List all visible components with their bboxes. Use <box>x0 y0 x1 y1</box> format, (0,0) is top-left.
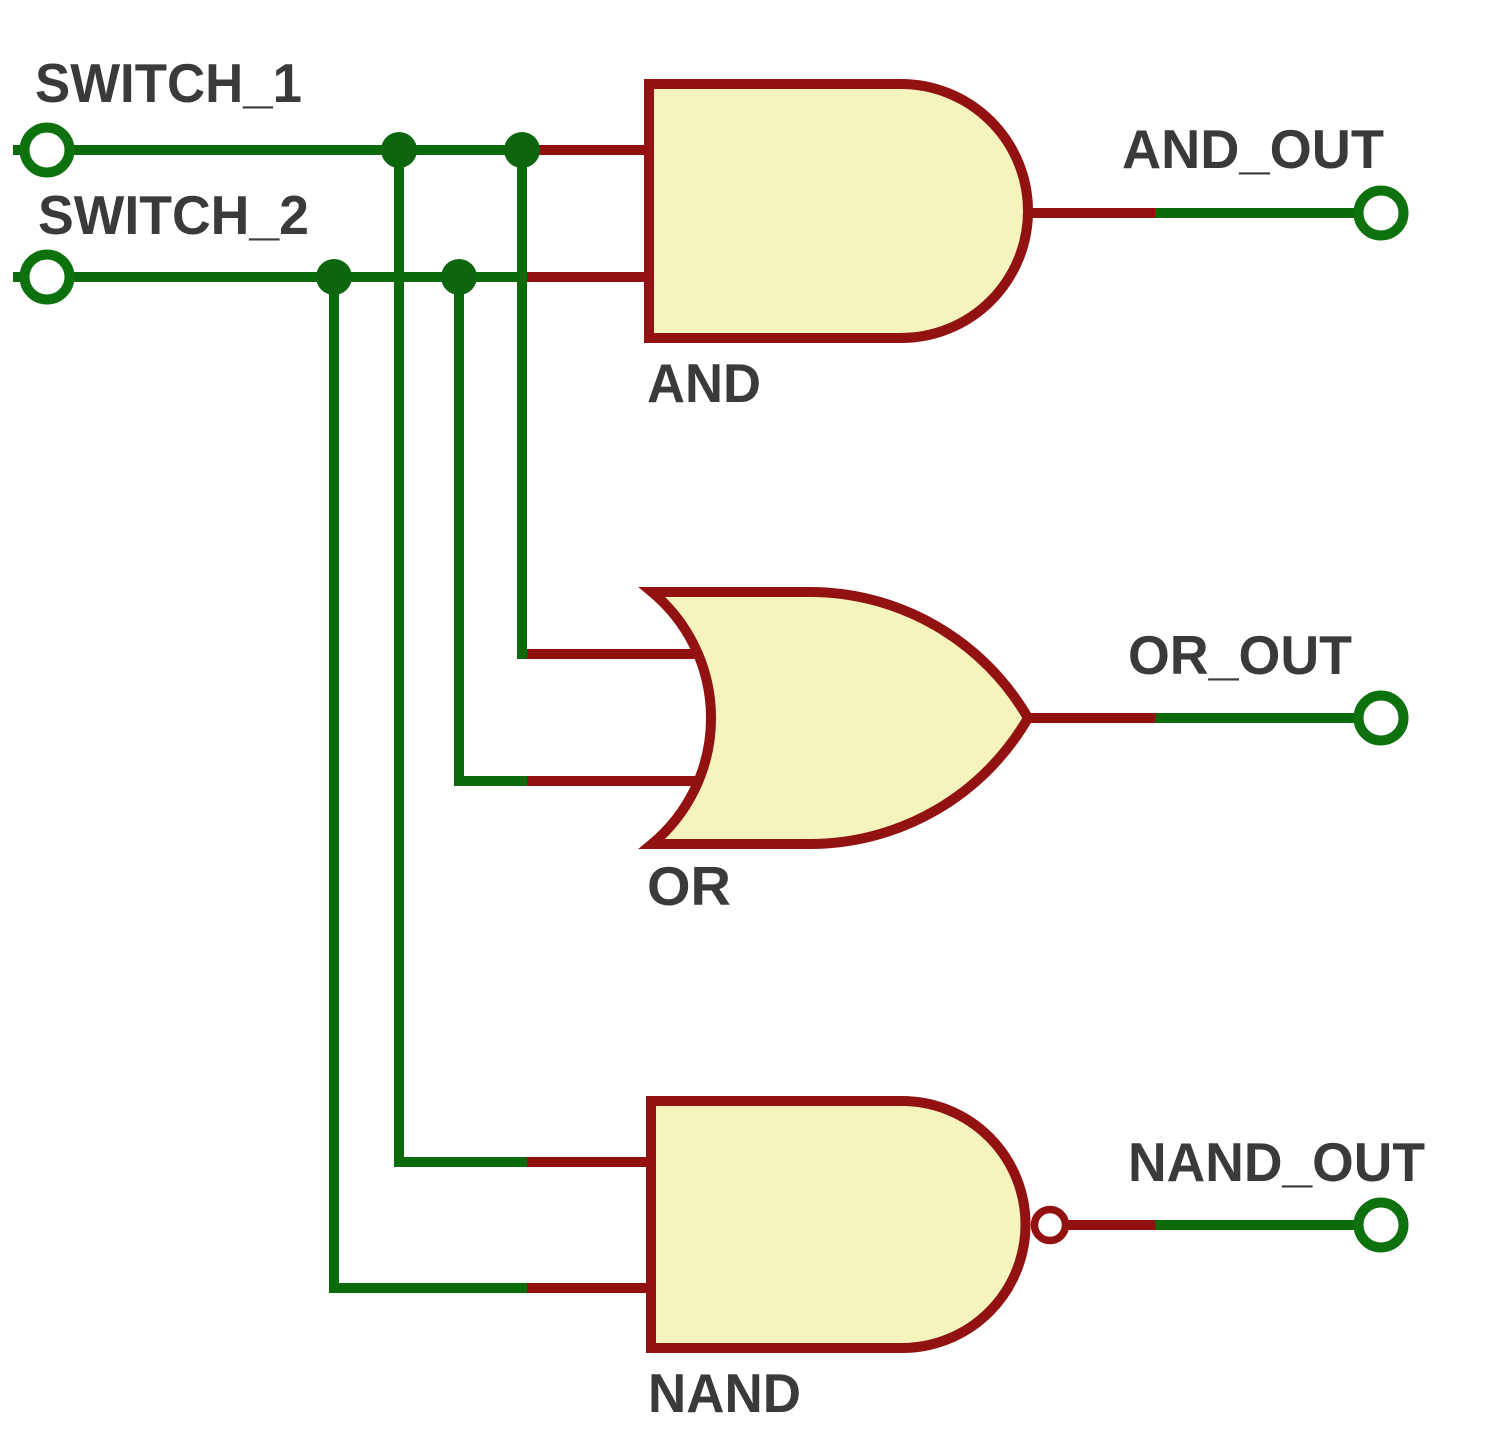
terminal AND_OUT circle <box>1359 191 1404 236</box>
pin OR input B (dark red) <box>527 776 705 786</box>
wire vertical S1 to OR input A <box>517 145 527 659</box>
pin AND input B (dark red) <box>527 272 653 282</box>
svg-text:AND: AND <box>647 352 761 414</box>
terminal SWITCH_2 circle <box>25 255 70 300</box>
gate OR body <box>652 592 1028 844</box>
wire horizontal to OR input B <box>454 776 527 786</box>
svg-text:AND_OUT: AND_OUT <box>1122 118 1384 180</box>
terminal SWITCH_1 circle <box>25 128 70 173</box>
pin NAND input B (dark red) <box>527 1283 655 1293</box>
junction S1/vertical x399 <box>381 132 417 168</box>
pin AND input A (dark red) <box>527 145 653 155</box>
wire vertical S1 to NAND input A <box>394 145 404 1167</box>
NAND inversion bubble <box>1035 1210 1066 1241</box>
terminal OR_OUT circle <box>1359 696 1404 741</box>
gate AND body <box>649 84 1028 338</box>
wire vertical S2 to OR input B <box>454 272 464 786</box>
wire SWITCH_1 rail (green horizontal) <box>70 145 527 155</box>
wire AND_OUT (green) <box>1155 208 1354 218</box>
terminal SWITCH_2 stub <box>13 272 23 282</box>
wire vertical S2 to NAND input B <box>329 272 339 1293</box>
svg-text:SWITCH_2: SWITCH_2 <box>38 184 309 246</box>
svg-text:OR_OUT: OR_OUT <box>1128 624 1352 686</box>
pin NAND output (dark red) <box>1065 1220 1155 1230</box>
wire NAND_OUT (green) <box>1155 1220 1354 1230</box>
terminal SWITCH_1 stub <box>13 145 23 155</box>
junction S1/vertical x522 <box>504 132 540 168</box>
junction S2/vertical x334 <box>316 259 352 295</box>
svg-text:NAND_OUT: NAND_OUT <box>1128 1131 1425 1193</box>
svg-text:NAND: NAND <box>648 1362 801 1424</box>
wire SWITCH_2 rail (green horizontal) <box>70 272 527 282</box>
svg-text:SWITCH_1: SWITCH_1 <box>35 52 302 114</box>
svg-text:OR: OR <box>647 855 731 917</box>
pin NAND input A (dark red) <box>527 1157 655 1167</box>
wire OR_OUT (green) <box>1155 713 1354 723</box>
pin OR input A (dark red) <box>517 649 705 659</box>
pin OR output (dark red) <box>1024 713 1155 723</box>
pin AND output (dark red) <box>1024 208 1155 218</box>
junction S2/vertical x459 <box>441 259 477 295</box>
terminal NAND_OUT circle <box>1359 1203 1404 1248</box>
wire horizontal to NAND input A <box>394 1157 527 1167</box>
wire horizontal to NAND input B <box>329 1283 527 1293</box>
gate NAND body <box>651 1101 1026 1348</box>
